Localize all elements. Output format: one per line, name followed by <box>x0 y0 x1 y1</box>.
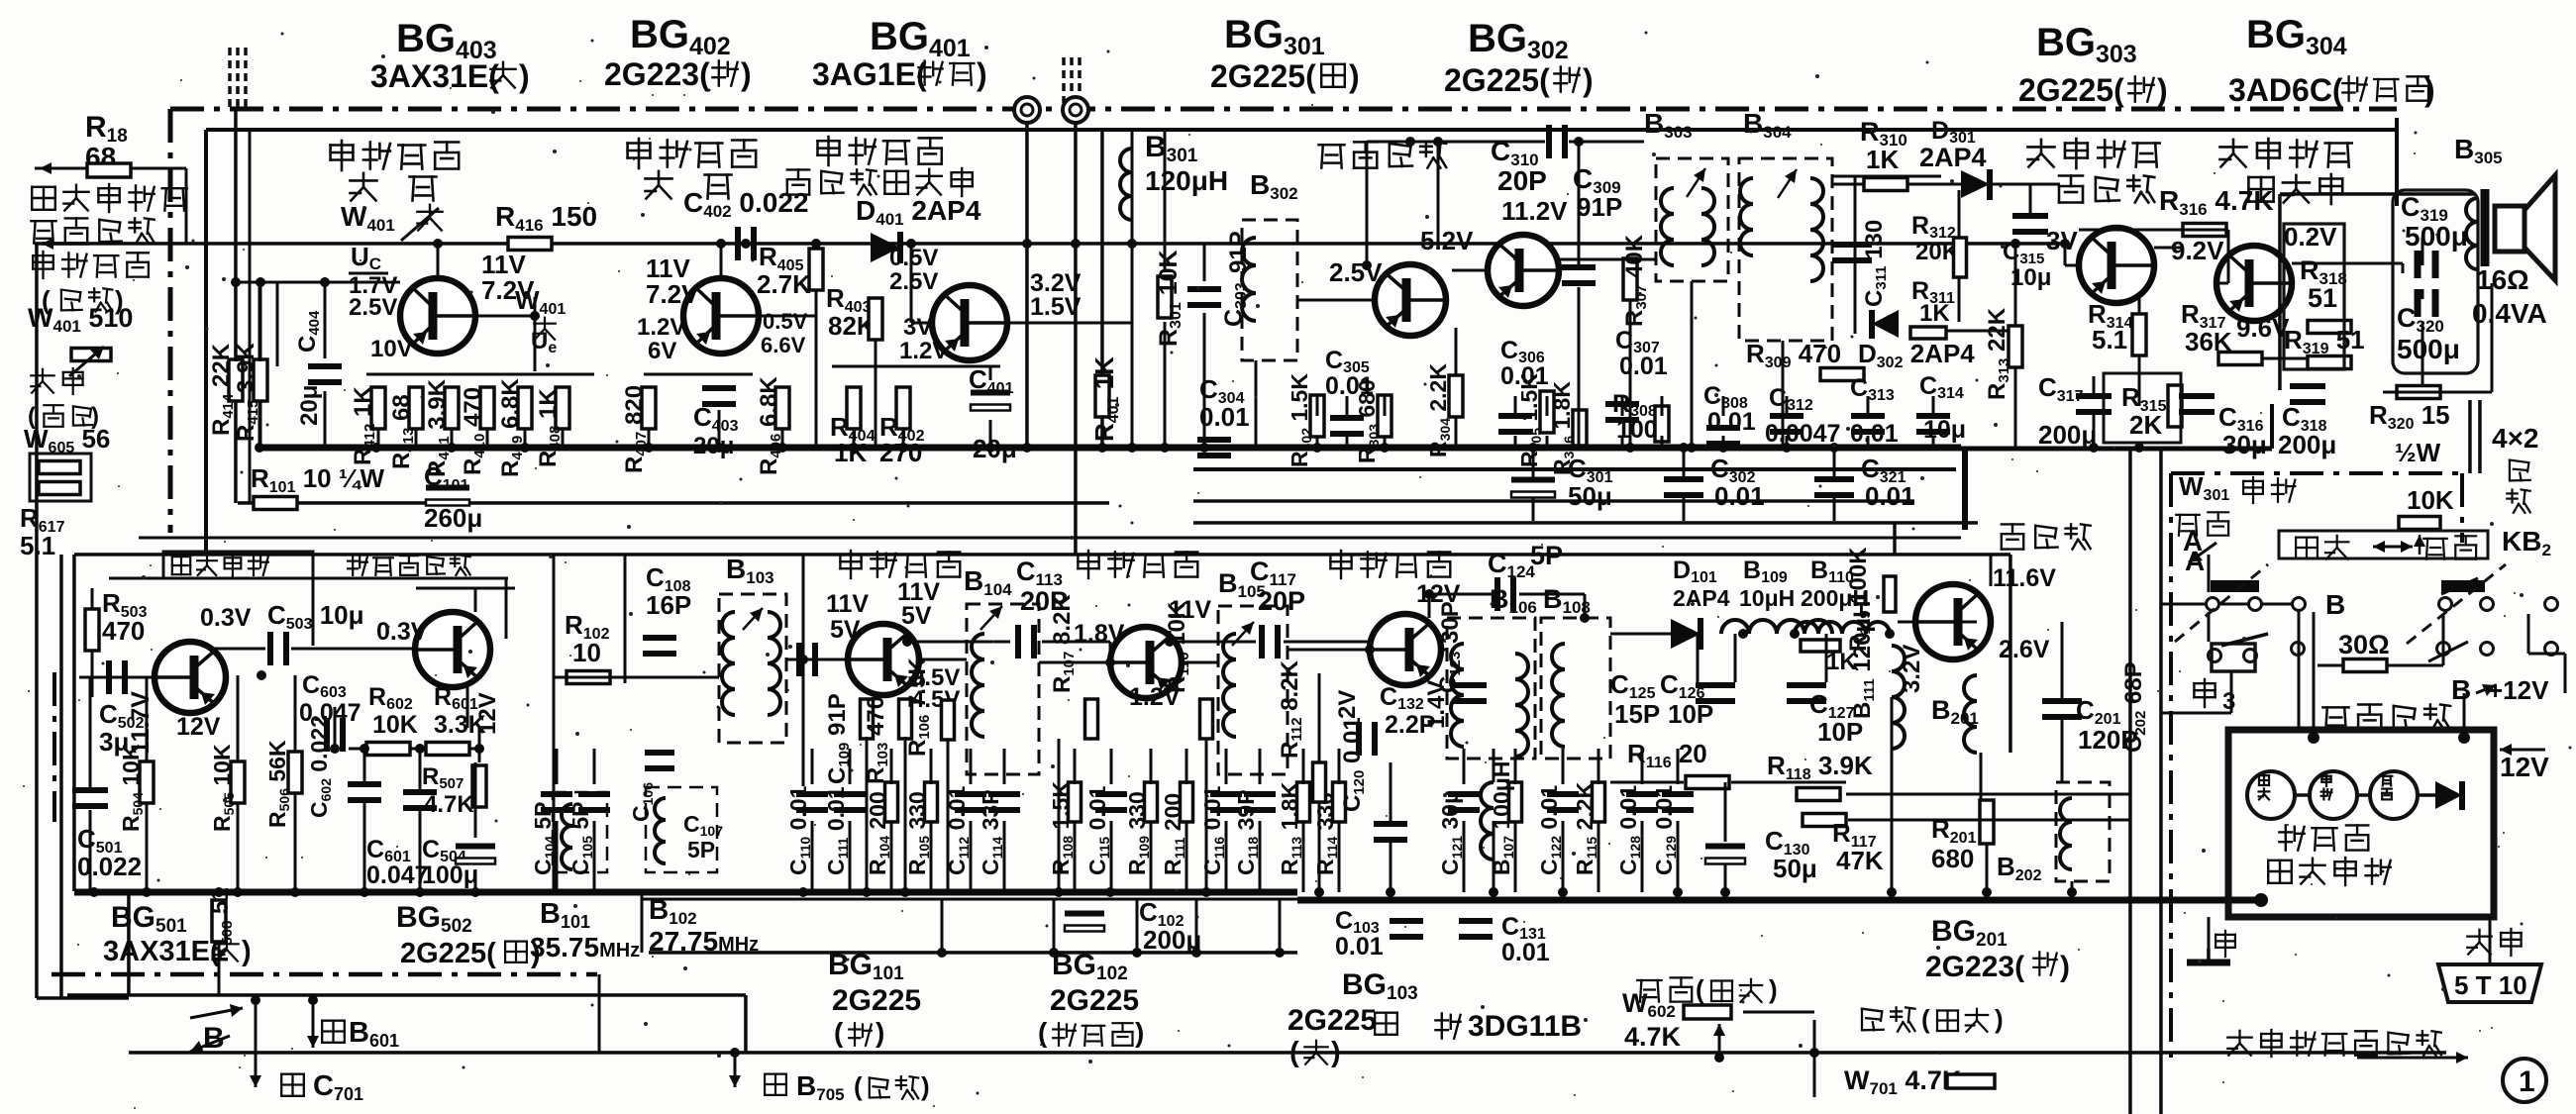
svg-text:): ) <box>2424 72 2435 108</box>
svg-text:0.022: 0.022 <box>77 852 142 881</box>
svg-text:0.01: 0.01 <box>1707 408 1756 436</box>
svg-text:5.1: 5.1 <box>2092 325 2127 354</box>
svg-text:R104 200: R104 200 <box>865 791 892 875</box>
svg-text:0.5V: 0.5V <box>763 309 808 334</box>
svg-text:2V: 2V <box>1334 690 1361 719</box>
svg-text:): ) <box>2060 951 2070 983</box>
svg-text:5V: 5V <box>830 616 861 644</box>
svg-text:16P: 16P <box>646 590 691 620</box>
svg-text:11.2V: 11.2V <box>1501 196 1568 226</box>
svg-text:R505 10K: R505 10K <box>209 744 237 832</box>
svg-text:0.01: 0.01 <box>1199 402 1250 432</box>
svg-text:47K: 47K <box>1836 846 1884 875</box>
svg-text:4.7K: 4.7K <box>424 791 474 818</box>
svg-text:30μ: 30μ <box>2222 430 2267 459</box>
svg-text:20μ: 20μ <box>693 433 734 459</box>
svg-text:200μ: 200μ <box>2038 420 2097 450</box>
svg-text:R113 1.8K: R113 1.8K <box>1277 781 1304 875</box>
svg-text:3AG1E(: 3AG1E( <box>812 56 927 92</box>
svg-text:2AP4: 2AP4 <box>1673 585 1730 611</box>
svg-text:B: B <box>2325 589 2345 620</box>
svg-text:3AD6C(: 3AD6C( <box>2228 72 2343 108</box>
svg-text:R504 10K: R504 10K <box>118 744 146 832</box>
svg-text:20P: 20P <box>1497 165 1547 196</box>
svg-text:B: B <box>2451 674 2471 705</box>
svg-text:3.2V: 3.2V <box>1899 645 1925 693</box>
svg-text:5P: 5P <box>1530 541 1563 570</box>
svg-text:2G225: 2G225 <box>1288 1004 1377 1037</box>
svg-text:(: ( <box>1038 1017 1048 1048</box>
svg-text:0.01: 0.01 <box>1619 353 1668 380</box>
svg-text:2.6V: 2.6V <box>1999 636 2050 663</box>
svg-text:4.7K: 4.7K <box>1624 1022 1682 1052</box>
svg-text:R110 10K: R110 10K <box>1164 601 1192 693</box>
svg-text:12V: 12V <box>176 713 221 741</box>
svg-text:3AX31E(: 3AX31E( <box>103 936 220 967</box>
svg-text:1K: 1K <box>834 438 867 467</box>
svg-text:0.3V: 0.3V <box>376 618 428 646</box>
svg-text:0.01: 0.01 <box>1865 481 1915 511</box>
svg-text:C115 0.01: C115 0.01 <box>1084 785 1112 875</box>
svg-text:260μ: 260μ <box>424 503 482 533</box>
svg-text:C121 30μ: C121 30μ <box>1437 790 1465 875</box>
svg-text:): ) <box>519 58 530 94</box>
svg-text:R506 56K: R506 56K <box>264 740 292 828</box>
svg-text:51: 51 <box>2308 283 2337 313</box>
svg-text:3: 3 <box>2222 688 2235 715</box>
svg-text:2.7K: 2.7K <box>757 269 811 299</box>
svg-text:3V: 3V <box>903 314 932 341</box>
svg-text:0.3V: 0.3V <box>200 604 252 632</box>
svg-text:R313 22K: R313 22K <box>1984 307 2012 400</box>
svg-text:680: 680 <box>1931 844 1974 873</box>
svg-text:2G225: 2G225 <box>832 984 921 1017</box>
svg-text:200μ: 200μ <box>1143 925 1201 955</box>
svg-text:2K: 2K <box>2129 410 2162 440</box>
svg-text:120μH: 120μH <box>1145 165 1228 196</box>
svg-text:R106 7.5K: R106 7.5K <box>904 658 933 757</box>
svg-text:10V: 10V <box>370 336 413 362</box>
svg-text:(: ( <box>854 1071 863 1101</box>
svg-text:½W: ½W <box>2395 438 2441 467</box>
svg-text:9.2V: 9.2V <box>2171 236 2224 265</box>
svg-text:): ) <box>1331 1037 1341 1068</box>
svg-text:10μH: 10μH <box>1739 585 1795 611</box>
svg-text:11.6V: 11.6V <box>1993 564 2056 592</box>
svg-text:5.1: 5.1 <box>20 531 55 560</box>
svg-text:4×2: 4×2 <box>2492 423 2539 454</box>
svg-text:R111 200: R111 200 <box>1160 793 1187 875</box>
svg-text:R114 330: R114 330 <box>1312 792 1340 875</box>
svg-text:(: ( <box>834 1017 844 1048</box>
svg-text:1: 1 <box>2519 1065 2535 1098</box>
svg-text:50μ: 50μ <box>1568 481 1612 511</box>
svg-text:C602 0.022: C602 0.022 <box>306 715 334 818</box>
svg-text:5P: 5P <box>687 837 715 862</box>
svg-text:): ) <box>1349 58 1360 94</box>
svg-text:1.8V: 1.8V <box>1074 620 1125 648</box>
svg-text:30Ω: 30Ω <box>2338 630 2390 659</box>
svg-text:0.01: 0.01 <box>1501 939 1550 966</box>
svg-text:R302 1.5K: R302 1.5K <box>1287 373 1314 467</box>
svg-text:R303 680: R303 680 <box>1354 379 1382 463</box>
svg-text:R109 330: R109 330 <box>1124 791 1152 875</box>
svg-text:1K: 1K <box>1919 300 1950 327</box>
svg-text:R107 8.2K: R107 8.2K <box>1049 594 1078 693</box>
svg-text:5V: 5V <box>901 602 932 630</box>
svg-text:7.2V: 7.2V <box>646 279 699 309</box>
svg-text:6.6V: 6.6V <box>761 333 806 357</box>
svg-text:R304 2.2K: R304 2.2K <box>1425 363 1453 457</box>
svg-text:200μ: 200μ <box>2278 430 2336 459</box>
svg-text:R115 2.2K: R115 2.2K <box>1572 781 1599 875</box>
svg-text:0.5V: 0.5V <box>889 245 938 271</box>
svg-text:5 T 10: 5 T 10 <box>2454 970 2527 1000</box>
svg-text:R406 6.8K: R406 6.8K <box>756 376 784 475</box>
svg-text:1.2V: 1.2V <box>637 314 685 341</box>
svg-text:): ) <box>977 56 987 92</box>
svg-text:10K: 10K <box>372 711 418 739</box>
svg-text:1.5V: 1.5V <box>1030 293 1082 321</box>
svg-text:A: A <box>2185 546 2205 576</box>
svg-text:+12V: +12V <box>2488 675 2549 705</box>
svg-text:C311 130: C311 130 <box>1861 220 1890 307</box>
svg-text:20μ: 20μ <box>296 385 323 426</box>
svg-text:C120 0.01: C120 0.01 <box>1339 717 1368 812</box>
svg-text:9.6V: 9.6V <box>2236 313 2290 343</box>
svg-text:R409 6.8K: R409 6.8K <box>497 378 526 477</box>
svg-text:270: 270 <box>879 438 922 467</box>
svg-text:R301 10K: R301 10K <box>1155 250 1185 347</box>
svg-text:2G225(: 2G225( <box>400 938 496 969</box>
svg-text:R112 8.2K: R112 8.2K <box>1277 659 1305 759</box>
svg-text:R410 470: R410 470 <box>460 387 488 475</box>
svg-text:C118 39P: C118 39P <box>1233 789 1261 875</box>
svg-text:11V: 11V <box>826 590 869 618</box>
svg-text:2.5V: 2.5V <box>1329 257 1383 287</box>
svg-text:C202 68P: C202 68P <box>2120 661 2149 753</box>
svg-text:5.2V: 5.2V <box>1420 226 1474 255</box>
svg-text:3DG11B: 3DG11B <box>1468 1010 1582 1043</box>
svg-text:(: ( <box>1696 974 1704 1004</box>
svg-text:B: B <box>203 1022 225 1055</box>
svg-text:2G223(: 2G223( <box>1925 951 2024 983</box>
svg-text:C116 0.01: C116 0.01 <box>1199 785 1227 875</box>
svg-text:): ) <box>2157 72 2168 108</box>
svg-text:C503 10μ: C503 10μ <box>267 600 364 633</box>
svg-text:): ) <box>1135 1017 1144 1048</box>
svg-text:R416 150: R416 150 <box>495 201 597 235</box>
svg-text:12V: 12V <box>2500 752 2549 782</box>
svg-text:C402 0.022: C402 0.022 <box>683 187 808 221</box>
svg-text:C111 0.01: C111 0.01 <box>823 786 851 875</box>
svg-text:D401 2AP4: D401 2AP4 <box>856 195 981 229</box>
svg-text:R108 1.5K: R108 1.5K <box>1048 781 1076 875</box>
svg-text:): ) <box>741 56 752 92</box>
svg-text:6V: 6V <box>648 338 676 364</box>
svg-text:R307 40K: R307 40K <box>1621 234 1650 327</box>
svg-text:500μ: 500μ <box>2405 221 2468 252</box>
svg-text:3AX31E(: 3AX31E( <box>370 58 499 94</box>
svg-text:2.5V: 2.5V <box>889 268 938 295</box>
svg-text:): ) <box>876 1017 884 1048</box>
svg-text:R316 4.7K: R316 4.7K <box>2159 185 2274 219</box>
svg-text:10P: 10P <box>1817 717 1863 747</box>
svg-text:): ) <box>1995 1004 2004 1034</box>
svg-text:0.01: 0.01 <box>1714 481 1765 511</box>
svg-text:(: ( <box>1921 1004 1930 1034</box>
svg-text:R105 330: R105 330 <box>904 791 932 875</box>
svg-text:C122 0.01: C122 0.01 <box>1536 785 1564 875</box>
svg-text:): ) <box>1583 62 1594 98</box>
svg-text:R118 3.9K: R118 3.9K <box>1767 751 1873 783</box>
svg-text:20P: 20P <box>1258 586 1305 616</box>
svg-text:0.01: 0.01 <box>1335 933 1384 961</box>
svg-text:0.4VA: 0.4VA <box>2472 298 2547 329</box>
svg-text:C114 33P: C114 33P <box>978 789 1005 875</box>
svg-text:50μ: 50μ <box>1773 854 1817 883</box>
svg-text:10K: 10K <box>2407 485 2454 515</box>
svg-text:): ) <box>242 936 252 967</box>
svg-text:470: 470 <box>102 616 145 646</box>
svg-text:10: 10 <box>572 638 601 667</box>
svg-text:2G223(: 2G223( <box>604 56 710 92</box>
svg-text:W701 4.7K: W701 4.7K <box>1844 1065 1962 1098</box>
svg-text:2.5V: 2.5V <box>349 294 397 321</box>
svg-text:R407 820: R407 820 <box>621 385 650 473</box>
svg-text:R305 1.5K: R305 1.5K <box>1516 373 1544 467</box>
svg-text:C129 0.01: C129 0.01 <box>1651 785 1679 875</box>
svg-text:30P: 30P <box>1437 601 1464 644</box>
svg-text:D302 2AP4: D302 2AP4 <box>1858 339 1975 371</box>
svg-text:(: ( <box>1289 1037 1299 1068</box>
svg-text:): ) <box>921 1071 930 1101</box>
svg-text:1K: 1K <box>1866 145 1899 174</box>
svg-text:16Ω: 16Ω <box>2476 264 2529 295</box>
svg-text:C110 0.01: C110 0.01 <box>785 785 813 875</box>
svg-text:15P: 15P <box>1614 699 1660 729</box>
svg-text:C128 0.01: C128 0.01 <box>1615 785 1643 875</box>
svg-text:100μ: 100μ <box>422 861 478 889</box>
svg-text:): ) <box>1769 974 1778 1004</box>
svg-text:91P: 91P <box>1577 192 1622 222</box>
svg-text:2G225: 2G225 <box>1050 984 1139 1017</box>
svg-text:2AP4: 2AP4 <box>1919 143 1987 172</box>
svg-text:2G225(: 2G225( <box>1444 62 1550 98</box>
svg-text:W401 510: W401 510 <box>28 303 133 336</box>
svg-text:2G225(: 2G225( <box>1210 58 1316 94</box>
svg-text:2G225(: 2G225( <box>2018 72 2124 108</box>
svg-text:500μ: 500μ <box>2397 334 2460 364</box>
